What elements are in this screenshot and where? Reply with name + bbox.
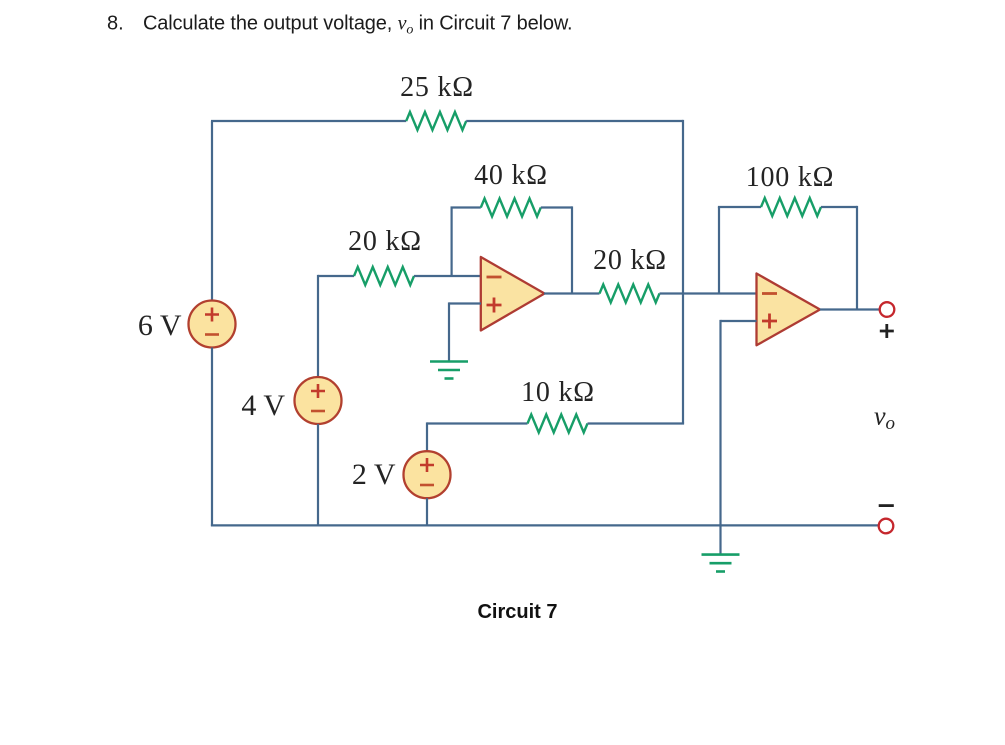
resistor R5 10 kOhm	[528, 415, 588, 433]
wire: U2 output to terminal	[820, 308, 880, 310]
ground symbol bottom	[702, 555, 740, 572]
wire: 40k feedback top right horizontal	[541, 206, 572, 208]
wire: from 20k to op-amp U1 inverting input	[414, 275, 481, 277]
svg-text:20 kΩ: 20 kΩ	[348, 226, 422, 257]
wire: 100k feedback left vertical	[718, 207, 720, 294]
wire: U2 plus input vertical down through bottom rail to ground	[719, 320, 721, 555]
wire: right vertical of 25k branch down to 10k node	[682, 120, 684, 424]
wire: top rail right segment from 25k to right corner	[466, 120, 683, 122]
voltage source V2 4V circle	[295, 377, 342, 424]
wire: 100k feedback top right horizontal	[821, 206, 857, 208]
wire: 4V branch vertical down to 4V source	[317, 275, 319, 377]
voltage source V3 2V circle	[404, 451, 451, 498]
op-amp U2	[757, 274, 821, 346]
wire: 100k feedback top left horizontal	[718, 206, 761, 208]
U1 non-inverting input pin mark	[487, 298, 502, 313]
wire: 2V bottom to bottom rail	[426, 498, 428, 526]
wire: top-left vertical from top rail down to 6V source top	[211, 121, 213, 301]
V3 plus polarity mark	[420, 458, 434, 472]
V1 plus polarity mark	[205, 308, 219, 322]
wire: 4V branch top corner horizontal to 20k resistor	[318, 275, 354, 277]
V2 minus polarity mark	[311, 410, 325, 413]
wire: U1 non-inverting input horizontal	[449, 302, 481, 304]
svg-text:25 kΩ: 25 kΩ	[400, 72, 474, 103]
wire: top rail left segment from corner to 25k resistor	[211, 120, 406, 122]
V3 minus polarity mark	[420, 484, 434, 487]
svg-text:40 kΩ: 40 kΩ	[474, 160, 548, 191]
problem title text	[107, 13, 572, 38]
U1 inverting input pin mark	[487, 276, 502, 279]
wire: 2V branch vertical to 10k wire	[426, 422, 428, 451]
U2 non-inverting input pin mark	[762, 314, 777, 329]
resistor R6 100 kOhm	[761, 198, 821, 216]
svg-text:6 V: 6 V	[138, 309, 182, 342]
wire: U1 plus input vertical down to ground	[448, 302, 450, 361]
wire: U1 output to 20k mid resistor	[544, 292, 600, 294]
wire: from 4V bottom to bottom rail	[317, 424, 319, 526]
terminal: output minus (open circle)	[879, 519, 894, 534]
resistor R4 20 kOhm (middle)	[600, 285, 660, 303]
ground symbol under U1	[430, 362, 468, 379]
svg-text:Calculate the output voltage,: Calculate the output voltage, vo in Circ…	[143, 13, 572, 38]
terminal: output plus (open circle)	[880, 302, 895, 317]
resistor R3 40 kOhm	[481, 199, 541, 217]
wire: from 20k mid to op-amp U2 inverting input	[660, 292, 757, 294]
svg-text:10 kΩ: 10 kΩ	[521, 377, 595, 408]
voltage source V1 6V circle	[189, 301, 236, 348]
label: plus sign at output terminal	[880, 324, 894, 338]
svg-text:4 V: 4 V	[241, 389, 285, 422]
V1 minus polarity mark	[205, 333, 219, 336]
wire: from 6V source bottom down to bottom rail	[211, 348, 213, 527]
wire: U2 non-inverting input horizontal	[721, 320, 757, 322]
svg-text:2 V: 2 V	[352, 458, 396, 491]
svg-text:Circuit 7: Circuit 7	[477, 601, 557, 623]
wire: 40k feedback top left horizontal	[451, 206, 481, 208]
svg-text:20 kΩ: 20 kΩ	[593, 245, 667, 276]
svg-text:100 kΩ: 100 kΩ	[746, 162, 835, 193]
label: minus sign at bottom terminal	[879, 504, 894, 507]
wire: 40k feedback right vertical down to U1 output	[571, 206, 573, 293]
wire: 100k feedback right vertical down to U2 output	[856, 206, 858, 310]
wire: 10k right segment to 25k vertical	[588, 422, 685, 424]
resistor R2 20 kOhm input	[354, 267, 414, 285]
wire: bottom rail	[211, 524, 879, 526]
V2 plus polarity mark	[311, 384, 325, 398]
svg-text:8.: 8.	[107, 13, 124, 35]
wire: 40k feedback left vertical	[451, 208, 453, 277]
svg-text:vo: vo	[874, 402, 895, 435]
op-amp U1	[481, 257, 545, 331]
U2 inverting input pin mark	[762, 292, 777, 295]
resistor R1 25 kOhm	[406, 112, 466, 130]
wire: 10k branch horizontal	[427, 422, 528, 424]
